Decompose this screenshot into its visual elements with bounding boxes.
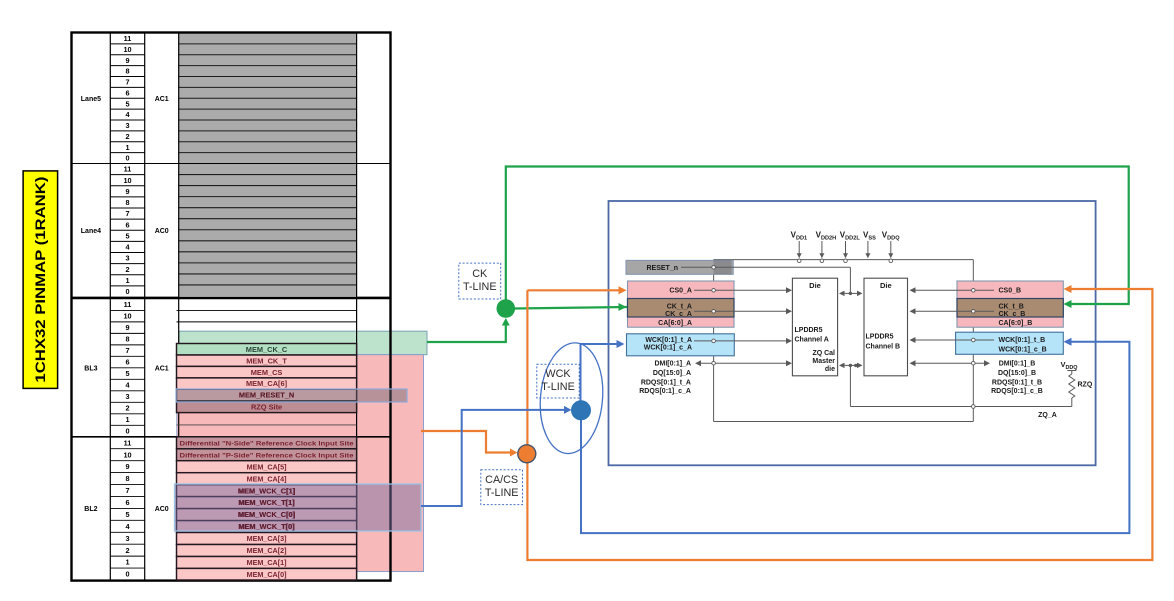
- svg-text:Die: Die: [880, 281, 892, 290]
- svg-text:7: 7: [125, 209, 129, 218]
- svg-text:DQ[15:0]_A: DQ[15:0]_A: [653, 370, 691, 377]
- svg-text:1: 1: [125, 415, 129, 424]
- svg-text:7: 7: [125, 346, 129, 355]
- svg-text:ZQ Cal: ZQ Cal: [812, 350, 835, 357]
- svg-text:BL2: BL2: [84, 506, 97, 513]
- svg-text:ZQ_A: ZQ_A: [1038, 412, 1057, 419]
- svg-text:T-LINE: T-LINE: [541, 381, 575, 393]
- svg-text:10: 10: [123, 450, 131, 459]
- svg-text:RDQS[0:1]_c_B: RDQS[0:1]_c_B: [991, 388, 1043, 395]
- svg-text:1CHX32 PINMAP (1RANK): 1CHX32 PINMAP (1RANK): [33, 177, 48, 383]
- svg-text:10: 10: [123, 312, 131, 321]
- svg-text:8: 8: [125, 67, 129, 76]
- svg-text:WCK[0:1]_t_A: WCK[0:1]_t_A: [645, 337, 692, 344]
- svg-text:Differential "N-Side" Referenc: Differential "N-Side" Reference Clock In…: [180, 440, 354, 447]
- svg-text:CK_c_A: CK_c_A: [665, 311, 692, 318]
- svg-text:9: 9: [125, 462, 129, 471]
- svg-text:CS0_B: CS0_B: [999, 288, 1022, 295]
- svg-text:3: 3: [125, 534, 129, 543]
- svg-text:CK_t_A: CK_t_A: [667, 303, 692, 310]
- svg-text:0: 0: [125, 154, 129, 163]
- svg-text:8: 8: [125, 335, 129, 344]
- svg-text:RZQ Site: RZQ Site: [251, 402, 282, 411]
- svg-text:Channel A: Channel A: [795, 337, 829, 344]
- svg-text:3: 3: [125, 121, 129, 130]
- svg-text:DMI[0:1]_B: DMI[0:1]_B: [999, 361, 1036, 368]
- svg-text:5: 5: [125, 231, 129, 240]
- svg-text:DQ[15:0]_B: DQ[15:0]_B: [998, 370, 1036, 377]
- svg-text:MEM_CK_C: MEM_CK_C: [246, 345, 288, 354]
- svg-text:5: 5: [125, 510, 129, 519]
- svg-text:MEM_WCK_C[1]: MEM_WCK_C[1]: [238, 486, 296, 495]
- svg-text:AC0: AC0: [155, 228, 169, 235]
- svg-text:MEM_WCK_C[0]: MEM_WCK_C[0]: [238, 510, 296, 519]
- svg-text:CA[6:0]_B: CA[6:0]_B: [999, 320, 1033, 327]
- svg-text:MEM_CA[1]: MEM_CA[1]: [247, 558, 287, 567]
- svg-text:3: 3: [125, 392, 129, 401]
- svg-text:0: 0: [125, 287, 129, 296]
- svg-text:RZQ: RZQ: [1078, 382, 1093, 389]
- svg-text:10: 10: [123, 45, 131, 54]
- svg-text:2: 2: [125, 132, 129, 141]
- svg-text:CK_t_B: CK_t_B: [999, 303, 1024, 310]
- svg-text:9: 9: [125, 187, 129, 196]
- svg-text:11: 11: [124, 165, 132, 174]
- svg-text:MEM_CA[0]: MEM_CA[0]: [247, 570, 287, 579]
- svg-text:9: 9: [125, 56, 129, 65]
- svg-text:6: 6: [125, 358, 129, 367]
- svg-text:MEM_CA[6]: MEM_CA[6]: [246, 379, 288, 388]
- svg-text:2: 2: [125, 404, 129, 413]
- svg-text:7: 7: [125, 486, 129, 495]
- svg-text:6: 6: [125, 220, 129, 229]
- svg-text:Lane4: Lane4: [81, 228, 101, 235]
- svg-text:Die: Die: [809, 281, 821, 290]
- svg-text:CK: CK: [472, 268, 488, 280]
- svg-text:Master: Master: [812, 358, 835, 365]
- svg-text:5: 5: [125, 369, 129, 378]
- svg-text:6: 6: [125, 88, 129, 97]
- svg-text:11: 11: [124, 438, 132, 447]
- svg-text:3: 3: [125, 254, 129, 263]
- svg-text:WCK[0:1]_t_B: WCK[0:1]_t_B: [999, 337, 1046, 344]
- svg-text:RESET_n: RESET_n: [646, 265, 678, 272]
- svg-text:T-LINE: T-LINE: [463, 281, 497, 293]
- svg-text:AC0: AC0: [155, 506, 169, 513]
- svg-text:RDQS[0:1]_c_A: RDQS[0:1]_c_A: [639, 388, 691, 395]
- svg-text:CK_c_B: CK_c_B: [999, 311, 1026, 318]
- svg-text:1: 1: [125, 558, 129, 567]
- svg-text:LPDDR5: LPDDR5: [795, 327, 823, 334]
- svg-text:Channel B: Channel B: [866, 344, 901, 351]
- svg-text:die: die: [825, 366, 835, 373]
- svg-text:2: 2: [125, 546, 129, 555]
- svg-text:MEM_RESET_N: MEM_RESET_N: [239, 391, 294, 400]
- svg-text:WCK[0:1]_c_A: WCK[0:1]_c_A: [644, 345, 692, 352]
- svg-text:0: 0: [125, 427, 129, 436]
- svg-text:CS0_A: CS0_A: [669, 288, 692, 295]
- svg-text:11: 11: [124, 34, 132, 43]
- svg-text:MEM_WCK_T[1]: MEM_WCK_T[1]: [238, 498, 295, 507]
- svg-text:6: 6: [125, 498, 129, 507]
- svg-text:MEM_CS: MEM_CS: [251, 368, 283, 377]
- svg-text:8: 8: [125, 198, 129, 207]
- svg-text:CA/CS: CA/CS: [485, 474, 518, 486]
- svg-text:MEM_WCK_T[0]: MEM_WCK_T[0]: [238, 522, 295, 531]
- svg-text:DMI[0:1]_A: DMI[0:1]_A: [654, 361, 691, 368]
- svg-text:WCK[0:1]_c_B: WCK[0:1]_c_B: [999, 347, 1047, 354]
- svg-text:2: 2: [125, 265, 129, 274]
- svg-text:Differential "P-Side" Referenc: Differential "P-Side" Reference Clock In…: [180, 452, 354, 459]
- svg-text:T-LINE: T-LINE: [485, 487, 519, 499]
- svg-text:1: 1: [125, 143, 129, 152]
- svg-text:7: 7: [125, 78, 129, 87]
- svg-text:9: 9: [125, 323, 129, 332]
- svg-text:CA[6:0]_A: CA[6:0]_A: [658, 320, 692, 327]
- svg-text:AC1: AC1: [155, 96, 169, 103]
- svg-text:0: 0: [125, 570, 129, 579]
- svg-text:8: 8: [125, 474, 129, 483]
- svg-text:MEM_CK_T: MEM_CK_T: [246, 356, 287, 365]
- svg-text:10: 10: [123, 176, 131, 185]
- svg-text:5: 5: [125, 99, 129, 108]
- svg-text:RDQS[0:1]_t_A: RDQS[0:1]_t_A: [641, 379, 691, 386]
- svg-text:11: 11: [124, 300, 132, 309]
- svg-text:MEM_CA[4]: MEM_CA[4]: [247, 474, 287, 483]
- svg-text:WCK: WCK: [545, 368, 571, 380]
- svg-text:MEM_CA[5]: MEM_CA[5]: [247, 462, 287, 471]
- svg-text:1: 1: [125, 276, 129, 285]
- svg-text:MEM_CA[2]: MEM_CA[2]: [247, 546, 287, 555]
- svg-text:RDQS[0:1]_t_B: RDQS[0:1]_t_B: [992, 379, 1042, 386]
- svg-text:LPDDR5: LPDDR5: [866, 334, 894, 341]
- svg-text:AC1: AC1: [155, 365, 169, 372]
- svg-text:MEM_CA[3]: MEM_CA[3]: [247, 534, 287, 543]
- svg-text:Lane5: Lane5: [81, 96, 101, 103]
- svg-text:BL3: BL3: [84, 365, 97, 372]
